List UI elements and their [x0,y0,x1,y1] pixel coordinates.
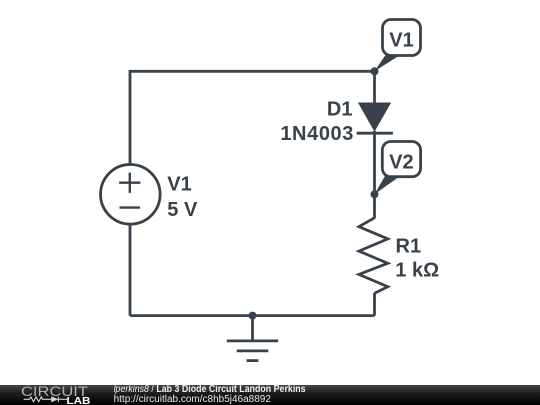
diode D1 [357,103,393,134]
node V2 dot [371,190,379,198]
svg-text:V1: V1 [167,174,191,196]
wire diode anode [373,71,376,104]
resistor R1 [359,218,388,293]
wire left rail lower [129,224,132,316]
wire node V2 to resistor [373,194,376,218]
svg-text:http://circuitlab.com/c8hb5j46: http://circuitlab.com/c8hb5j46a8892 [114,394,272,405]
footer bar [0,385,540,405]
svg-text:LAB: LAB [67,396,91,405]
svg-text:lperkins8 / Lab 3 Diode Circui: lperkins8 / Lab 3 Diode Circuit Landon P… [114,384,306,395]
svg-text:D1: D1 [327,99,353,121]
voltage source V1 [101,165,161,225]
net flag V1 [375,20,421,72]
wire bottom horizontal [130,314,375,317]
node V1 dot [371,67,379,75]
svg-text:V2: V2 [389,151,413,173]
wire diode cathode to node V2 [373,131,376,194]
wire top horizontal [130,71,375,163]
svg-text:R1: R1 [396,235,422,257]
wire resistor to bottom [373,293,376,316]
svg-text:1N4003: 1N4003 [280,123,354,145]
svg-text:V1: V1 [389,29,413,51]
node junction ground dot [249,312,257,320]
svg-text:5 V: 5 V [167,199,198,221]
net flag V2 [375,142,421,195]
svg-text:1 kΩ: 1 kΩ [395,260,439,282]
CircuitLab logo [21,384,91,405]
ground [227,316,278,361]
